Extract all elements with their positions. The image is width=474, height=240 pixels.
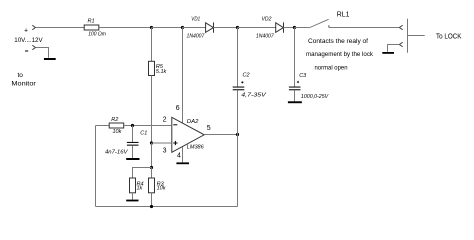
svg-text:Contacts the realy of: Contacts the realy of [308, 38, 368, 45]
wire node C down to C2 [237, 28, 239, 87]
node H junction R3 bottom [150, 205, 153, 208]
bottom rail wire [96, 206, 238, 208]
wire C1 to ground [132, 146, 134, 158]
node A junction [150, 26, 153, 29]
wire output pin 5 [204, 134, 237, 136]
svg-text:10k: 10k [113, 129, 122, 135]
svg-text:to: to [18, 72, 24, 79]
ground (input) [44, 58, 56, 60]
op-amp DA2 [172, 117, 204, 152]
node F junction divider [150, 166, 153, 169]
wire pin 4 [182, 147, 184, 162]
connector input + [32, 25, 35, 30]
wire node C to VD2 [238, 27, 276, 29]
resistor R3 [149, 178, 155, 193]
svg-text:100 Om: 100 Om [88, 32, 106, 38]
svg-text:+: + [24, 27, 28, 34]
capacitor C3 [289, 87, 301, 91]
node I junction [131, 124, 134, 127]
connector input - [32, 45, 35, 50]
wire left riser [95, 126, 97, 207]
diode VD1 [206, 22, 214, 32]
wire node D down to C3 [294, 28, 296, 87]
diode VD2 [276, 22, 284, 32]
connector to lock top [399, 25, 402, 30]
svg-text:6: 6 [176, 105, 180, 112]
svg-text:To LOCK: To LOCK [436, 33, 462, 40]
wire R5 to node E [151, 76, 153, 144]
svg-text:5: 5 [207, 125, 211, 132]
svg-text:C1: C1 [140, 130, 147, 136]
non-inverting input marker + [173, 141, 177, 145]
svg-text:C3: C3 [299, 73, 307, 79]
label + (C3) [297, 81, 299, 83]
svg-text:R1: R1 [88, 19, 95, 25]
wire node E to node F [151, 143, 153, 168]
svg-text:4: 4 [177, 153, 181, 160]
wire top rail input to R1 [36, 27, 85, 29]
svg-text:Monitor: Monitor [11, 80, 36, 87]
wire node A down to R5 [151, 28, 153, 62]
wire node G down to bottom rail [237, 135, 239, 207]
svg-text:4n7-16V: 4n7-16V [105, 150, 129, 156]
svg-text:VD2: VD2 [262, 17, 272, 23]
svg-text:R2: R2 [111, 117, 118, 123]
connector to lock bottom [399, 42, 402, 47]
wire node D to relay contact [295, 27, 309, 29]
capacitor C2 [233, 87, 245, 91]
wire lock bottom to ground [388, 45, 400, 52]
wire node B to VD1 [182, 27, 205, 29]
wire pin 2 [133, 125, 172, 127]
note contacts of relay [306, 38, 374, 72]
svg-text:management by the lock: management by the lock [306, 51, 374, 58]
resistor R1 [84, 25, 99, 30]
wire riser to R2 [96, 125, 110, 127]
svg-text:RL1: RL1 [337, 11, 350, 18]
wire node A to node B [152, 27, 183, 29]
wire node B to pin 6 [182, 28, 184, 124]
inverting input marker - [173, 124, 177, 126]
label to Monitor [11, 72, 36, 87]
relay contact RL1 switch blade [309, 19, 329, 28]
svg-text:C2: C2 [243, 72, 250, 78]
svg-text:10k: 10k [157, 186, 166, 192]
wire contact to lock connector [329, 27, 399, 29]
wire VD2 to node D [284, 27, 295, 29]
label + (C2) [241, 81, 243, 83]
node B junction [181, 26, 184, 29]
lock bracket [408, 19, 425, 53]
svg-text:DA2: DA2 [187, 119, 199, 125]
resistor R4 [130, 178, 136, 193]
svg-text:1000,0-25V: 1000,0-25V [301, 94, 330, 100]
svg-text:normal open: normal open [315, 65, 348, 72]
wire R4 to ground [132, 193, 134, 200]
node C junction [236, 26, 239, 29]
svg-text:10V....12V: 10V....12V [14, 37, 43, 44]
ground (C1) [126, 158, 139, 160]
svg-text:4,7-35V: 4,7-35V [241, 93, 267, 99]
wire node F to R3 [151, 168, 153, 179]
wire C2 to node G [237, 91, 239, 135]
wire VD1 to node C [214, 27, 238, 29]
ground (lock) [382, 52, 394, 54]
svg-text:5.1k: 5.1k [156, 69, 167, 75]
node D junction [293, 26, 296, 29]
label - (input) [25, 50, 28, 52]
resistor R2 [109, 123, 124, 128]
svg-text:VD1: VD1 [191, 17, 200, 23]
wire input- to ground [36, 48, 49, 58]
node G junction output [236, 133, 239, 136]
ground (R4) [126, 200, 138, 202]
svg-text:1N4007: 1N4007 [187, 34, 206, 40]
ground (pin 4) [176, 162, 189, 164]
wire pin 3 [152, 142, 172, 144]
wire R3 to bottom rail [151, 193, 153, 207]
svg-text:LM386: LM386 [187, 145, 205, 151]
resistor R5 [149, 61, 155, 75]
wire R1 to node A [99, 27, 152, 29]
capacitor C1 [127, 142, 139, 146]
svg-text:2: 2 [163, 116, 167, 123]
ground (C3) [288, 101, 302, 103]
node E junction pin3 [150, 141, 153, 144]
wire node I down to C1 [132, 126, 134, 142]
wire C3 to ground [294, 91, 296, 102]
relay contact right terminal [328, 25, 330, 27]
svg-text:1k: 1k [137, 186, 143, 192]
wire R2 to node I [124, 125, 133, 127]
svg-text:3: 3 [163, 147, 167, 154]
wire node F to R4 [133, 168, 152, 179]
svg-text:1N4007: 1N4007 [256, 34, 275, 40]
